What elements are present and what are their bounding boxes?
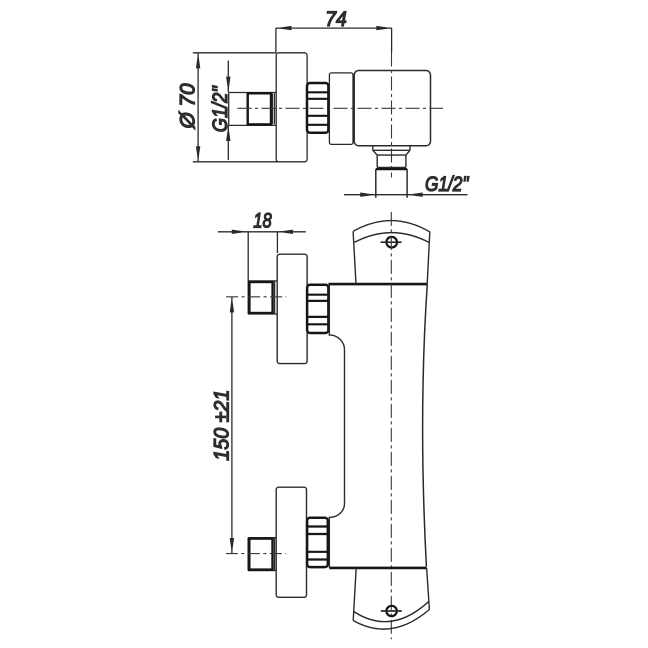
valve housing (top view)	[329, 73, 353, 144]
svg-text:G1/2": G1/2"	[425, 173, 470, 196]
dimension G1/2 outlet line	[344, 194, 468, 196]
svg-text:Ø 70: Ø 70	[177, 83, 200, 129]
top screw tick line (front view)	[381, 241, 402, 243]
inlet nipple thread block lower (front view)	[249, 539, 272, 570]
dimension 74 right arrow	[376, 26, 392, 30]
dimension G1/2 (top view) lower arrow	[226, 125, 230, 141]
cap bottom right edge (front view)	[427, 568, 430, 610]
cap top inner arc (front view)	[355, 233, 430, 243]
outlet pipe (top view)	[376, 169, 407, 198]
body top edge (front view)	[329, 283, 428, 286]
dimension 150±21 line	[231, 297, 233, 554]
dimension G1/2 outlet right arrow	[407, 193, 423, 197]
dimension 74 right extension line	[391, 28, 393, 52]
vertical centerline (front view)	[390, 212, 392, 639]
outlet thread collar (top view)	[377, 155, 406, 167]
union nut facet lines upper (front view)	[307, 295, 328, 325]
dimension 18 right extension line	[276, 232, 278, 253]
dimension 18 left arrow	[232, 230, 248, 234]
dimension G1/2 outlet left arrow	[360, 193, 376, 197]
inlet nipple shank upper (front view)	[248, 281, 277, 314]
wall plate upper (front view)	[277, 254, 307, 363]
union nut facet lines lower (front view)	[307, 527, 328, 560]
cap top left edge (front view)	[353, 231, 356, 284]
cap bottom inner arc (front view)	[354, 601, 429, 621]
union nut facet lines (top view)	[307, 92, 328, 125]
body left edge middle (front view)	[344, 350, 346, 504]
dimension Ø70 top extension line	[193, 52, 276, 54]
dimension 18 left extension / nipple end line	[247, 232, 249, 314]
dimension Ø70 line	[197, 53, 199, 162]
union nut lower (front view)	[307, 518, 328, 567]
cap top right edge (front view)	[427, 232, 430, 284]
dimension G1/2 (top view) upper arrow	[226, 77, 230, 93]
dimension 74 left arrow	[276, 26, 292, 30]
wall plate (top view)	[276, 53, 307, 162]
body left edge upper (front view)	[328, 284, 330, 335]
outlet flange (top view)	[373, 146, 410, 151]
dimension Ø70 bottom extension line	[193, 161, 278, 163]
body right edge (front view)	[423, 284, 428, 566]
horizontal centerline (top view)	[238, 107, 444, 109]
inlet nipple shank (top view)	[229, 93, 277, 126]
outlet collar shoulder (top view)	[376, 168, 407, 170]
cap bottom outer arc (front view)	[353, 610, 429, 630]
dimension G1/2 (top view) lower line	[227, 125, 229, 159]
dimension G1/2 (top view) upper line	[227, 61, 229, 93]
inlet nipple relief line upper (front view)	[274, 281, 276, 314]
svg-text:18: 18	[253, 210, 272, 233]
wall plate lower (front view)	[276, 487, 306, 597]
outlet chamfer cone (top view)	[373, 150, 410, 155]
mixer body (top view)	[354, 71, 430, 146]
upper inlet centerline (front view)	[226, 296, 286, 298]
bottom screw tick line (front view)	[381, 610, 402, 612]
dimension Ø70 top arrow	[196, 53, 200, 69]
inlet nipple thread block (top view)	[248, 93, 271, 124]
union nut (top view)	[307, 83, 328, 133]
dimension 74 line	[276, 27, 392, 29]
bottom screw hole (front view)	[386, 606, 396, 616]
union nut upper (front view)	[307, 285, 328, 333]
dimension 18 line	[218, 231, 306, 233]
dimension Ø70 bottom arrow	[196, 146, 200, 162]
dimension 150±21 top arrow	[230, 297, 234, 313]
svg-text:150 ±21: 150 ±21	[211, 390, 234, 461]
body left edge lower (front view)	[328, 517, 330, 568]
inlet nipple thread relief lines (top view)	[272, 93, 274, 124]
body left lower corner (front view)	[329, 503, 345, 517]
cap bottom left edge (front view)	[353, 568, 356, 621]
body bottom edge (front view)	[329, 567, 426, 570]
dimension 18 right arrow	[277, 230, 293, 234]
dimension 74 left extension line	[275, 28, 277, 53]
body left upper corner (front view)	[329, 335, 345, 350]
dimension 150±21 bottom arrow	[230, 538, 234, 554]
lower inlet centerline (front view)	[226, 553, 286, 555]
inlet nipple relief line lower (front view)	[274, 538, 276, 570]
inlet nipple thread block upper (front view)	[249, 282, 272, 313]
inlet nipple shank lower (front view)	[248, 538, 276, 571]
top screw hole (front view)	[386, 237, 397, 248]
vertical centerline (top view)	[391, 53, 393, 178]
cap top outer arc (front view)	[353, 221, 430, 232]
